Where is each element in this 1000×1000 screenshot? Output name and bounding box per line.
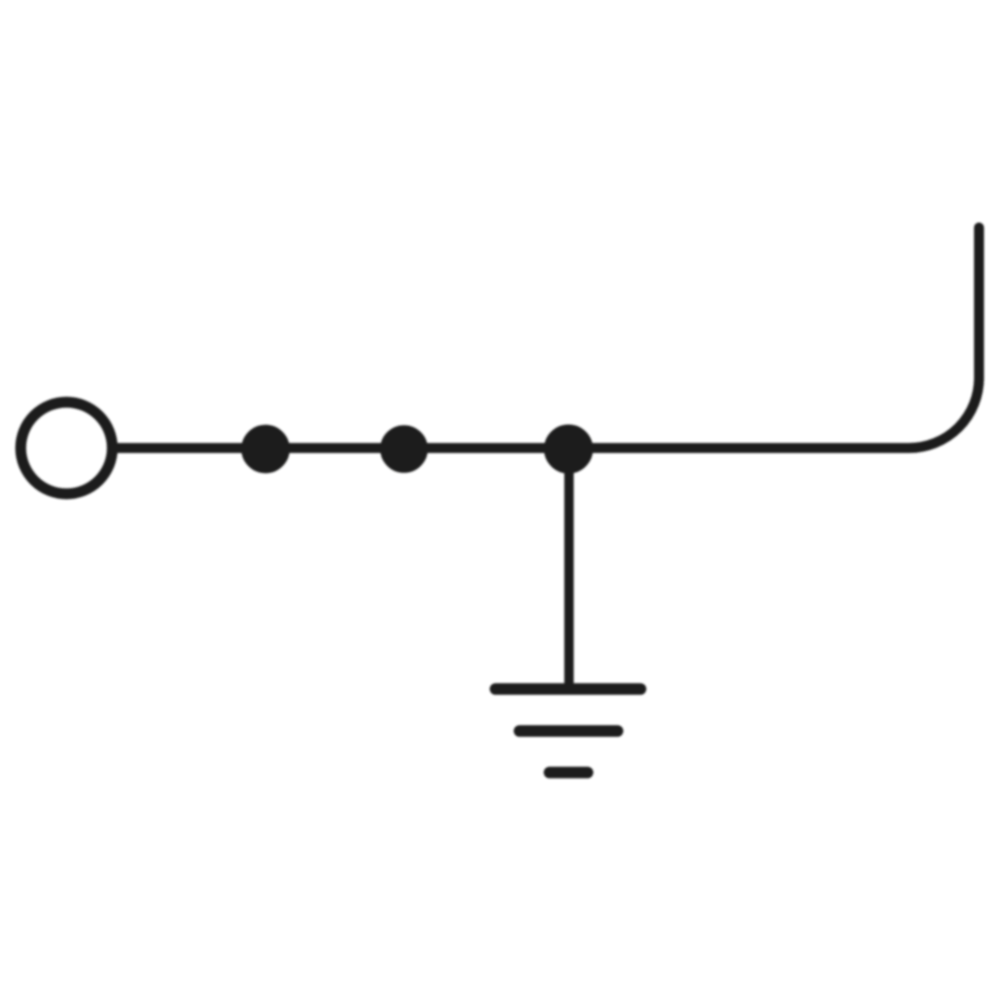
junction dot 3 (node to earth) [545,425,593,473]
wire (vertical drop from junction dot 3 to earth symbol) [564,449,573,689]
junction dot 2 [381,426,428,473]
ground (earth symbol, bar 2 - middle) [520,725,618,737]
terminal X1 (open contact circle) [21,402,113,494]
ground (earth symbol, bar 3 - bottom) [550,767,588,779]
ground (earth symbol, bar 1 - top) [496,683,641,695]
junction dot 1 [242,425,289,472]
wire (horizontal bus from terminal, curving up to top-right exit) [115,228,979,449]
